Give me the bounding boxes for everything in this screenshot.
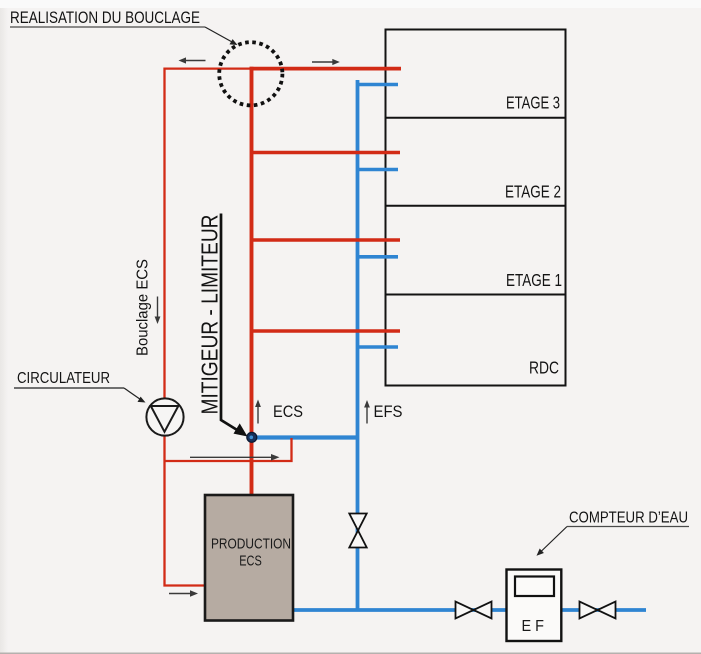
svg-text:Bouclage ECS: Bouclage ECS xyxy=(135,259,152,356)
svg-text:PRODUCTION: PRODUCTION xyxy=(211,536,291,553)
blue pipe: EFS riser xyxy=(356,80,360,610)
flow arrow bottom-left (right) xyxy=(169,593,192,595)
water meter box xyxy=(507,570,562,642)
dotted circle highlight xyxy=(219,42,282,105)
red pipe: bouclage loop (left thin circuit) xyxy=(165,69,252,586)
node: mixing point xyxy=(247,432,257,442)
floor line etage2/etage1 xyxy=(386,205,566,207)
flow arrow EFS (up) xyxy=(366,406,368,424)
building outline xyxy=(386,30,566,386)
meter display window xyxy=(515,577,554,597)
svg-text:RDC: RDC xyxy=(529,358,559,378)
flow arrow bouclage (down) xyxy=(157,297,159,319)
svg-text:E F: E F xyxy=(521,618,544,635)
red pipe: stub etage2 xyxy=(252,151,401,155)
compteur underline xyxy=(567,526,689,528)
circulateur leader arrow xyxy=(124,388,141,400)
blue pipe: stub etage3 xyxy=(358,83,399,87)
svg-text:CIRCULATEUR: CIRCULATEUR xyxy=(17,370,110,387)
isolation valve left of meter xyxy=(456,602,474,619)
pump circulateur symbol xyxy=(146,398,183,435)
blue pipe: mixer feed xyxy=(252,435,358,439)
isolation valve right of meter xyxy=(580,602,598,619)
valve on EFS riser xyxy=(349,514,366,531)
red pipe: stub etage1 xyxy=(252,238,401,242)
floor line etage3/etage2 xyxy=(386,117,566,119)
circulateur underline xyxy=(14,387,124,389)
flow arrow top-right (right) xyxy=(312,61,334,63)
flow arrow ECS (up) xyxy=(257,405,259,424)
production ECS tank xyxy=(205,495,293,621)
blue pipe: stub etage2 xyxy=(358,168,399,172)
flow arrow top-left (left) xyxy=(184,60,206,62)
compteur leader arrow xyxy=(541,527,567,552)
floor line etage1/rdc xyxy=(386,294,566,296)
blue pipe: stub etage1 xyxy=(358,255,399,259)
svg-text:ETAGE 3: ETAGE 3 xyxy=(506,93,560,113)
svg-text:ETAGE 2: ETAGE 2 xyxy=(505,182,561,202)
blue pipe: stub rdc xyxy=(358,345,399,349)
pump triangle xyxy=(151,406,179,432)
flow arrow return (right) xyxy=(190,456,273,458)
red pipe: stub rdc xyxy=(252,329,401,333)
red pipe: bouclage return to mixer xyxy=(165,438,292,461)
mitigeur leader arrow xyxy=(221,214,242,434)
svg-text:MITIGEUR - LIMITEUR: MITIGEUR - LIMITEUR xyxy=(197,215,223,415)
svg-text:ECS: ECS xyxy=(273,402,303,421)
svg-text:REALISATION DU BOUCLAGE: REALISATION DU BOUCLAGE xyxy=(10,9,200,27)
node core xyxy=(250,436,254,440)
red pipe: top distribution xyxy=(250,67,402,71)
svg-text:ETAGE 1: ETAGE 1 xyxy=(506,270,562,290)
title underline xyxy=(10,26,205,28)
svg-text:COMPTEUR D’EAU: COMPTEUR D’EAU xyxy=(569,510,688,527)
title leader arrow to dotted circle xyxy=(205,27,233,43)
blue pipe: bottom main xyxy=(293,608,646,612)
svg-text:EFS: EFS xyxy=(374,402,403,421)
svg-text:ECS: ECS xyxy=(239,553,262,570)
red pipe: main riser xyxy=(250,67,254,496)
